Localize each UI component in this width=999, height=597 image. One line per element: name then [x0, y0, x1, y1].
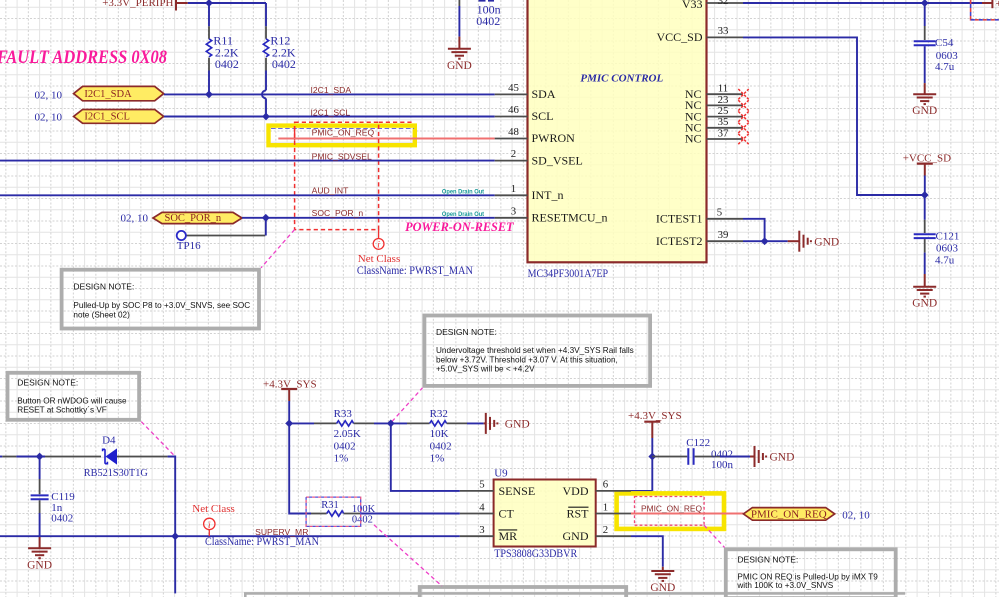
wire +4.3V down to VDD: [651, 457, 653, 491]
wire SOC_POR_n: [242, 217, 495, 219]
junction +4.3V_SYS rail: [285, 420, 293, 428]
capacitor 100n 0402 (clipped at top): [459, 0, 494, 49]
pin 11 NC: [685, 83, 743, 101]
wire PMIC_SDVSEL: [0, 160, 495, 162]
svg-text:C121: C121: [936, 231, 960, 243]
junction TP16/SOC_POR_n: [262, 214, 270, 222]
pointer line mask to note 4: [704, 525, 724, 547]
design note box 4: [726, 549, 896, 597]
wire R33 junction to SENSE: [391, 423, 460, 491]
svg-text:4: 4: [479, 501, 485, 513]
svg-text:48: 48: [508, 126, 519, 138]
junction at R11 top: [205, 0, 213, 7]
svg-text:0603: 0603: [936, 50, 959, 62]
junction C119/D4 net: [36, 453, 44, 461]
no-ERC marker pin 35: [738, 123, 748, 133]
blanket directive (red dashed) around reset nets: [295, 122, 379, 229]
wire hop R12 over I2C1_SDA: [262, 90, 266, 116]
resistor R33: [314, 421, 391, 426]
svg-text:32: 32: [718, 0, 729, 7]
svg-text:VCC_SD: VCC_SD: [656, 30, 702, 44]
svg-text:02, 10: 02, 10: [121, 213, 149, 225]
design note box 1: [62, 270, 259, 329]
svg-text:2.05K: 2.05K: [334, 428, 361, 440]
svg-text:37: 37: [718, 127, 729, 139]
op-amp U? PMIC IC body MC34PF3001A7EP: [528, 0, 707, 262]
svg-text:I2C1_SDA: I2C1_SDA: [84, 89, 132, 100]
svg-text:ICTEST1: ICTEST1: [656, 212, 703, 226]
selection marquee top-right corner: [971, 0, 999, 20]
svg-text:DESIGN NOTE:: DESIGN NOTE:: [436, 327, 497, 337]
svg-text:SDA: SDA: [532, 87, 556, 101]
pin 39 ICTEST2: [656, 229, 743, 248]
wire I2C1_SCL: [164, 116, 495, 118]
svg-text:MC34PF3001A7EP: MC34PF3001A7EP: [528, 268, 609, 280]
pin 1 INT_n: [495, 183, 564, 202]
svg-text:2: 2: [603, 524, 608, 536]
svg-text:PMIC CONTROL: PMIC CONTROL: [580, 73, 663, 85]
ground GND (C122): [755, 446, 767, 467]
power port +4.3V_SYS (right): [628, 410, 682, 456]
pin 46 SCL: [495, 104, 554, 123]
svg-text:SOC_POR_n: SOC_POR_n: [312, 208, 364, 218]
wire +3.3V_PERIPH rail: [188, 2, 266, 4]
svg-text:10K: 10K: [430, 428, 449, 440]
svg-text:+5.0V_SYS will be < +4.2V: +5.0V_SYS will be < +4.2V: [436, 364, 535, 373]
svg-text:R33: R33: [334, 408, 353, 420]
svg-text:RESETMCU_n: RESETMCU_n: [532, 211, 608, 225]
wire R33 junction to R32: [391, 422, 407, 424]
no-ERC marker pin 25: [738, 111, 748, 121]
wire down to sheet edge: [174, 536, 176, 593]
svg-text:5: 5: [717, 206, 722, 218]
pin 3 MR (U9): [460, 524, 517, 543]
svg-text:TP16: TP16: [177, 240, 201, 252]
svg-text:GND: GND: [814, 236, 839, 248]
svg-text:Undervoltage threshold set whe: Undervoltage threshold set when +4.3V_SY…: [436, 346, 634, 355]
pin 45 SDA: [495, 82, 556, 101]
ground GND (C54): [913, 94, 936, 104]
wire V33 rail: [743, 2, 982, 4]
wire VDD to +4.3V (under highlight): [631, 490, 652, 492]
power stub right edge: [982, 0, 999, 10]
svg-text:0402: 0402: [51, 513, 73, 525]
no-ERC marker pin 37: [738, 134, 748, 144]
highlight box around PMIC_ON_REQ label: [269, 126, 415, 146]
svg-text:PMIC_ON_REQ: PMIC_ON_REQ: [312, 127, 375, 137]
svg-text:with 100K to +3.0V_SNVS: with 100K to +3.0V_SNVS: [736, 581, 833, 590]
svg-text:SD_VSEL: SD_VSEL: [532, 153, 583, 167]
svg-text:23: 23: [718, 94, 729, 106]
svg-text:I2C1_SDA: I2C1_SDA: [311, 85, 352, 95]
junction R33/R32: [387, 420, 395, 428]
junction C122: [648, 453, 656, 461]
svg-text:I2C1_SCL: I2C1_SCL: [84, 112, 130, 123]
capacitor C121: [914, 195, 936, 287]
svg-text:RESET at Schottky´s VF: RESET at Schottky´s VF: [17, 405, 106, 414]
red dashed segment above highlight: [379, 121, 414, 123]
svg-text:39: 39: [718, 229, 729, 241]
power port +4.3V_SYS (left): [263, 379, 317, 424]
svg-text:AUD_INT: AUD_INT: [312, 185, 350, 195]
pin 5 ICTEST1: [656, 206, 743, 225]
pin 3 RESETMCU_n: [495, 205, 608, 224]
wire PMIC_ON_REQ (red net): [278, 138, 494, 140]
wire U9 GND: [631, 536, 663, 567]
svg-text:35: 35: [718, 116, 729, 128]
svg-text:GND: GND: [912, 105, 937, 117]
red solid segment blanket left: [294, 126, 296, 141]
svg-text:ClassName: PWRST_MAN: ClassName: PWRST_MAN: [205, 536, 320, 548]
svg-text:TPS3808G33DBVR: TPS3808G33DBVR: [494, 548, 577, 560]
svg-text:0402: 0402: [272, 57, 296, 71]
svg-text:RB521S30T1G: RB521S30T1G: [84, 467, 148, 479]
pin 2 GND (U9): [563, 524, 632, 543]
svg-text:0402: 0402: [430, 440, 452, 452]
dashed mask around R31: [306, 497, 361, 526]
net class directive circle-i: [373, 239, 384, 251]
svg-text:1: 1: [603, 501, 608, 513]
design note box 2: [8, 373, 140, 420]
svg-text:SCL: SCL: [532, 109, 554, 123]
svg-text:NC: NC: [685, 132, 702, 146]
wire rail to R33: [289, 422, 314, 424]
svg-text:MR: MR: [499, 529, 518, 543]
svg-text:D4: D4: [102, 434, 116, 446]
svg-text:0402: 0402: [352, 514, 373, 525]
svg-text:Open Drain Out: Open Drain Out: [442, 189, 484, 196]
svg-text:5: 5: [479, 479, 484, 491]
pin 48 PWRON: [495, 126, 575, 145]
resistor R12: [263, 26, 268, 90]
svg-text:VDD: VDD: [563, 484, 589, 498]
wire ICTEST2: [743, 240, 788, 242]
svg-text:DESIGN NOTE:: DESIGN NOTE:: [73, 282, 134, 292]
net class directive circle-i (bottom): [204, 518, 215, 536]
svg-text:3: 3: [511, 205, 516, 217]
dashed mask around PMIC_ON_REQ label (bottom): [635, 497, 705, 526]
svg-text:Net Class: Net Class: [358, 253, 400, 265]
junction V33/C54: [921, 0, 929, 7]
svg-text:C122: C122: [686, 437, 710, 449]
svg-text:1: 1: [511, 183, 516, 195]
ground GND (top middle): [448, 49, 471, 59]
svg-text:R31: R31: [321, 500, 339, 511]
resistor R11: [206, 26, 211, 94]
svg-text:02, 10: 02, 10: [35, 89, 63, 101]
svg-text:Pulled-Up by SOC P8 to +3.0V_S: Pulled-Up by SOC P8 to +3.0V_SNVS, see S…: [73, 301, 250, 310]
wire VCC_SD: [743, 37, 925, 195]
design note box 3: [424, 316, 650, 386]
svg-text:C54: C54: [935, 37, 954, 49]
svg-text:ClassName: PWRST_MAN: ClassName: PWRST_MAN: [357, 265, 474, 277]
svg-text:Net Class: Net Class: [192, 503, 234, 515]
svg-text:GND: GND: [447, 60, 472, 72]
svg-text:DESIGN NOTE:: DESIGN NOTE:: [737, 554, 798, 564]
svg-text:+4.3V_SYS: +4.3V_SYS: [628, 410, 682, 422]
svg-text:25: 25: [718, 105, 729, 117]
svg-text:45: 45: [508, 82, 519, 94]
wire stub GND (U9): [662, 567, 664, 571]
wire R11 to rail: [208, 3, 210, 26]
svg-text:CT: CT: [499, 506, 515, 520]
port PMIC_ON_REQ (bottom): [743, 508, 834, 521]
junction +VCC_SD/C121: [921, 191, 929, 199]
svg-text:PMIC_ON_REQ: PMIC_ON_REQ: [751, 509, 827, 521]
diode D4: [45, 448, 175, 536]
capacitor C119: [31, 457, 49, 549]
svg-text:note (Sheet 02): note (Sheet 02): [73, 310, 130, 319]
no-ERC marker pin 23: [738, 100, 748, 110]
svg-text:PMIC_ON_REQ: PMIC_ON_REQ: [641, 503, 702, 513]
svg-text:46: 46: [508, 104, 519, 116]
svg-text:i: i: [208, 521, 211, 531]
svg-text:RST: RST: [566, 506, 589, 520]
wire PMIC_ON_REQ (bottom red net): [631, 513, 743, 515]
pin 2 SD_VSEL: [495, 148, 583, 167]
junction SUPERV_MR: [171, 532, 179, 540]
resistor R31: [311, 511, 460, 516]
svg-text:ICTEST2: ICTEST2: [656, 234, 703, 248]
pin 25 NC: [685, 105, 743, 123]
svg-text:0402: 0402: [334, 440, 356, 452]
svg-text:6: 6: [603, 479, 609, 491]
wire SUPERV_MR: [0, 535, 460, 537]
ground GND (ICTEST2): [799, 231, 811, 252]
pointer line blanket to note 1: [261, 230, 295, 268]
svg-text:R32: R32: [430, 408, 448, 420]
compile-mask dashed line in highlight: [271, 128, 414, 130]
ground GND (R32): [486, 413, 498, 434]
pin 23 NC: [685, 94, 743, 112]
svg-text:DESIGN NOTE:: DESIGN NOTE:: [17, 377, 78, 387]
svg-text:PMIC_SDVSEL: PMIC_SDVSEL: [312, 152, 372, 162]
svg-text:0402: 0402: [476, 14, 500, 28]
svg-text:0603: 0603: [936, 243, 959, 255]
svg-text:GND: GND: [27, 559, 52, 571]
svg-text:PWRON: PWRON: [532, 131, 576, 145]
svg-text:GND: GND: [770, 452, 795, 464]
svg-text:100n: 100n: [711, 459, 734, 471]
svg-text:+3: +3: [996, 0, 999, 10]
pointer line R31 to note 5: [374, 525, 442, 586]
svg-text:33: 33: [718, 25, 729, 37]
svg-text:i: i: [377, 241, 380, 251]
port I2C1_SDA: [74, 86, 164, 100]
highlight box around PMIC_ON_REQ (bottom): [617, 493, 724, 529]
transistor U9 body TPS3808G33DBVR: [494, 480, 596, 547]
wire left edge into D4 net: [0, 456, 45, 458]
design note box 5 (clipped bottom): [420, 587, 627, 597]
pin 37 NC: [685, 127, 743, 145]
ground GND (U9): [651, 571, 674, 581]
capacitor C122: [652, 448, 754, 465]
svg-text:POWER-ON-RESET: POWER-ON-RESET: [405, 219, 514, 234]
port SOC_POR_n: [153, 212, 242, 223]
no-ERC marker pin 11: [738, 89, 748, 99]
svg-text:I2C1_SCL: I2C1_SCL: [311, 107, 351, 117]
ground GND (C121): [913, 287, 936, 297]
wire ICTEST1: [743, 219, 765, 241]
pin 35 NC: [685, 116, 743, 134]
junction ICTEST: [761, 237, 769, 245]
svg-text:SENSE: SENSE: [499, 484, 536, 498]
svg-text:INT_n: INT_n: [532, 188, 564, 202]
power port +3.3V_PERIPH: [102, 0, 188, 11]
wire I2C1_SDA: [164, 93, 495, 95]
svg-text:U9: U9: [494, 467, 508, 479]
svg-text:1%: 1%: [430, 452, 445, 464]
net class directive stub: [378, 230, 380, 239]
svg-text:Open Drain Out: Open Drain Out: [442, 211, 484, 218]
resistor R32: [407, 421, 486, 426]
pin 6 VDD (U9): [563, 479, 632, 498]
svg-text:GND: GND: [505, 419, 530, 431]
wire AUD_INT: [0, 194, 495, 196]
junction R11/I2C1_SDA: [205, 91, 213, 99]
svg-text:2: 2: [511, 148, 516, 160]
svg-text:02, 10: 02, 10: [842, 509, 870, 521]
wire +4.3V_SYS down to R31: [289, 423, 311, 513]
svg-text:02, 10: 02, 10: [35, 112, 63, 124]
wire stub to GND (ICTEST): [788, 240, 800, 242]
port I2C1_SCL: [74, 110, 164, 124]
pin 32 V33: [682, 0, 743, 11]
pointer line junction to note 3: [392, 388, 423, 422]
test point TP16: [177, 218, 266, 240]
svg-text:Button OR nWDOG will cause: Button OR nWDOG will cause: [17, 396, 127, 405]
svg-text:0402: 0402: [215, 57, 239, 71]
power port +VCC_SD: [903, 153, 951, 195]
ground GND (C119): [28, 548, 51, 558]
svg-text:SOC_POR_n: SOC_POR_n: [165, 213, 222, 224]
pin 1 RST (U9): [566, 501, 631, 520]
svg-text:GND: GND: [912, 298, 937, 310]
svg-text:GND: GND: [563, 529, 589, 543]
svg-text:DEFAULT ADDRESS 0X08: DEFAULT ADDRESS 0X08: [0, 48, 167, 68]
wire R12 rail corner: [265, 3, 267, 26]
pin 33 VCC_SD: [656, 25, 743, 44]
svg-text:3: 3: [479, 524, 484, 536]
svg-text:V33: V33: [682, 0, 703, 11]
svg-text:1%: 1%: [334, 452, 349, 464]
svg-text:4.7u: 4.7u: [935, 61, 955, 73]
svg-text:4.7u: 4.7u: [935, 255, 955, 267]
junction R12/I2C1_SCL: [262, 113, 270, 121]
svg-text:GND: GND: [650, 582, 675, 594]
svg-text:11: 11: [718, 83, 728, 95]
svg-text:+3.3V_PERIPH: +3.3V_PERIPH: [102, 0, 173, 9]
sheet boundary line bottom: [245, 593, 905, 597]
capacitor C54: [914, 3, 936, 94]
pointer line note 2 to wire: [141, 422, 175, 457]
pin 5 SENSE (U9): [460, 479, 535, 498]
pin 4 CT (U9): [460, 501, 515, 520]
